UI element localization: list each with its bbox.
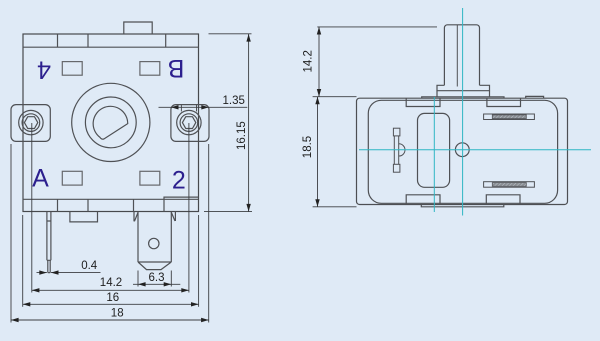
flange foot right xyxy=(489,91,491,97)
spade terminal hole xyxy=(149,238,159,248)
svg-text:14.2: 14.2 xyxy=(303,50,315,72)
shaft xyxy=(444,25,479,86)
contact window rect upper-right xyxy=(140,62,160,76)
extension line 18.5 top xyxy=(313,96,357,98)
terminal bar top outline xyxy=(484,114,535,120)
side body outer rect xyxy=(357,98,568,204)
bottom recess left xyxy=(406,195,440,205)
top band divider 1 xyxy=(57,34,59,47)
spring bar xyxy=(394,136,398,164)
D-shaped shaft hole xyxy=(93,106,128,139)
bottom band line xyxy=(23,198,199,200)
terminal bar top hatch xyxy=(492,115,526,119)
svg-text:0.4: 0.4 xyxy=(81,260,98,272)
arrow 1.35 right xyxy=(201,105,209,109)
svg-text:4: 4 xyxy=(37,55,51,83)
top band line xyxy=(23,46,199,48)
top recess right xyxy=(487,98,521,106)
top strip xyxy=(422,97,504,98)
spade lance left xyxy=(134,212,138,222)
top right small tab xyxy=(526,96,544,98)
dimension line 16 xyxy=(23,303,199,305)
extension line 14.2 side top xyxy=(317,26,437,28)
flange foot left xyxy=(436,91,438,97)
under-band tab xyxy=(70,212,98,222)
extension line 16.15 top xyxy=(209,33,252,35)
arrow 18.5 bottom xyxy=(315,199,319,207)
dimension line 18 xyxy=(11,319,209,321)
left wire pin xyxy=(47,212,51,261)
svg-text:2: 2 xyxy=(172,166,186,194)
bottom band divider 4 xyxy=(163,199,165,211)
extension line 16 left xyxy=(22,215,24,307)
arrow 16.15 bottom xyxy=(246,204,250,212)
arrow 6.3 right xyxy=(164,282,172,286)
spring bump semicircle xyxy=(399,144,405,156)
right ear hex nut xyxy=(182,117,195,129)
svg-text:A: A xyxy=(32,165,49,193)
shaft flange xyxy=(437,85,490,90)
extension line 6.3 right xyxy=(170,271,172,287)
top band divider 2 xyxy=(87,34,89,47)
spring top cap xyxy=(393,128,400,136)
arrow 6.3 left xyxy=(138,282,146,286)
arrow 0.4 right xyxy=(51,270,59,274)
left ear inner circle xyxy=(22,114,40,132)
left ear outer circle xyxy=(19,110,43,134)
centerline rotor axis vertical xyxy=(433,97,435,212)
bottom band divider 3 xyxy=(133,199,135,211)
svg-text:16.15: 16.15 xyxy=(236,121,248,150)
extension line 6.3 left xyxy=(137,271,139,287)
bottom band divider 1 xyxy=(57,199,59,211)
svg-text:6.3: 6.3 xyxy=(149,272,165,284)
top recess left xyxy=(406,98,440,106)
centerline horizontal xyxy=(359,149,591,151)
arrow 1.35 left xyxy=(171,105,179,109)
side body inner rounded rect xyxy=(368,100,557,203)
contact window rect upper-left xyxy=(62,62,82,76)
center pivot circle xyxy=(455,143,469,157)
arrow 14.2 left xyxy=(32,288,40,292)
switch body outline xyxy=(23,34,199,212)
extension line 18 right xyxy=(208,144,210,323)
svg-text:18: 18 xyxy=(111,308,124,320)
arrow 14.2 right xyxy=(181,288,189,292)
terminal bar bottom hatch xyxy=(492,183,526,187)
rivet center line right xyxy=(188,123,190,293)
left mounting ear xyxy=(11,105,50,142)
rotary hub outer circle xyxy=(72,83,150,161)
extension line 16 right xyxy=(198,215,200,307)
top mounting tab xyxy=(124,22,152,34)
arrow 18 right xyxy=(201,318,209,322)
spade terminal xyxy=(138,212,171,270)
dimension line 1.35 xyxy=(159,106,248,108)
shaft D-flat line xyxy=(456,25,458,87)
right ear neck line right xyxy=(196,105,198,112)
svg-text:16: 16 xyxy=(106,292,119,304)
centerline shaft axis vertical xyxy=(462,8,464,216)
arrow 0.4 left xyxy=(39,270,47,274)
terminal bar bottom outline xyxy=(484,182,535,188)
dimension line 18.5 xyxy=(317,97,319,207)
dimension line 0.4 xyxy=(37,272,101,274)
bottom strip xyxy=(421,205,504,207)
top band divider 3 xyxy=(165,34,167,47)
svg-text:1.35: 1.35 xyxy=(223,95,245,107)
rotary hub middle circle xyxy=(85,97,136,148)
right mounting ear xyxy=(171,105,209,142)
left ear hex nut xyxy=(24,117,37,129)
spade lance right xyxy=(171,212,175,222)
arrow 16 left xyxy=(23,302,31,306)
spring bottom cap xyxy=(393,164,400,172)
arrow 18 left xyxy=(11,318,19,322)
dimension line 14.2 side xyxy=(318,27,320,97)
extension line 18.5 bottom xyxy=(313,206,357,208)
extension line 16.15 bottom xyxy=(204,211,252,213)
dimension line 16.15 xyxy=(248,34,250,212)
arrow 14.2 side bottom xyxy=(317,89,321,97)
arrow 18.5 top xyxy=(315,97,319,105)
extension line 18 left xyxy=(10,144,12,323)
contact window rect lower-right xyxy=(140,171,160,185)
rotor rect xyxy=(418,113,450,187)
left wire pin tip xyxy=(48,260,50,272)
svg-text:18.5: 18.5 xyxy=(302,136,314,158)
right ear neck line left xyxy=(180,105,182,112)
bottom recess right xyxy=(486,195,520,205)
contact window rect lower-left xyxy=(62,171,82,185)
svg-text:B: B xyxy=(168,54,185,82)
right ear inner circle xyxy=(180,114,198,132)
dimension line 6.3 xyxy=(133,283,180,285)
arrow 14.2 side top xyxy=(317,27,321,35)
dimension line 14.2 xyxy=(32,289,189,291)
arrow 16.15 top xyxy=(246,34,250,42)
arrow 16 right xyxy=(191,302,199,306)
svg-text:14.2: 14.2 xyxy=(100,277,122,289)
bottom band divider 2 xyxy=(87,199,89,211)
bottom band raised step xyxy=(164,197,199,199)
rivet center line left xyxy=(31,123,33,293)
right ear outer circle xyxy=(177,110,201,134)
